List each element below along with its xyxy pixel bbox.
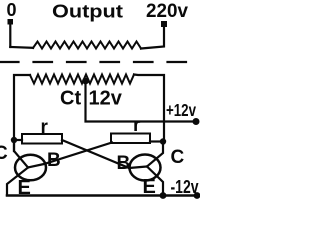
svg-text:220v: 220v: [146, 1, 188, 22]
svg-text:B: B: [47, 150, 61, 171]
svg-text:E: E: [143, 176, 156, 198]
svg-text:Ct: Ct: [60, 88, 81, 110]
svg-text:0: 0: [7, 0, 17, 20]
svg-text:E: E: [18, 177, 31, 199]
svg-text:-12v: -12v: [171, 176, 200, 197]
svg-text:+12v: +12v: [166, 100, 196, 120]
svg-text:B: B: [117, 153, 131, 174]
svg-text:C: C: [171, 147, 185, 168]
svg-text:Output: Output: [52, 2, 123, 22]
svg-text:r: r: [41, 117, 49, 138]
svg-text:r: r: [133, 115, 141, 136]
svg-text:12v: 12v: [89, 88, 123, 110]
svg-text:C: C: [0, 143, 8, 164]
